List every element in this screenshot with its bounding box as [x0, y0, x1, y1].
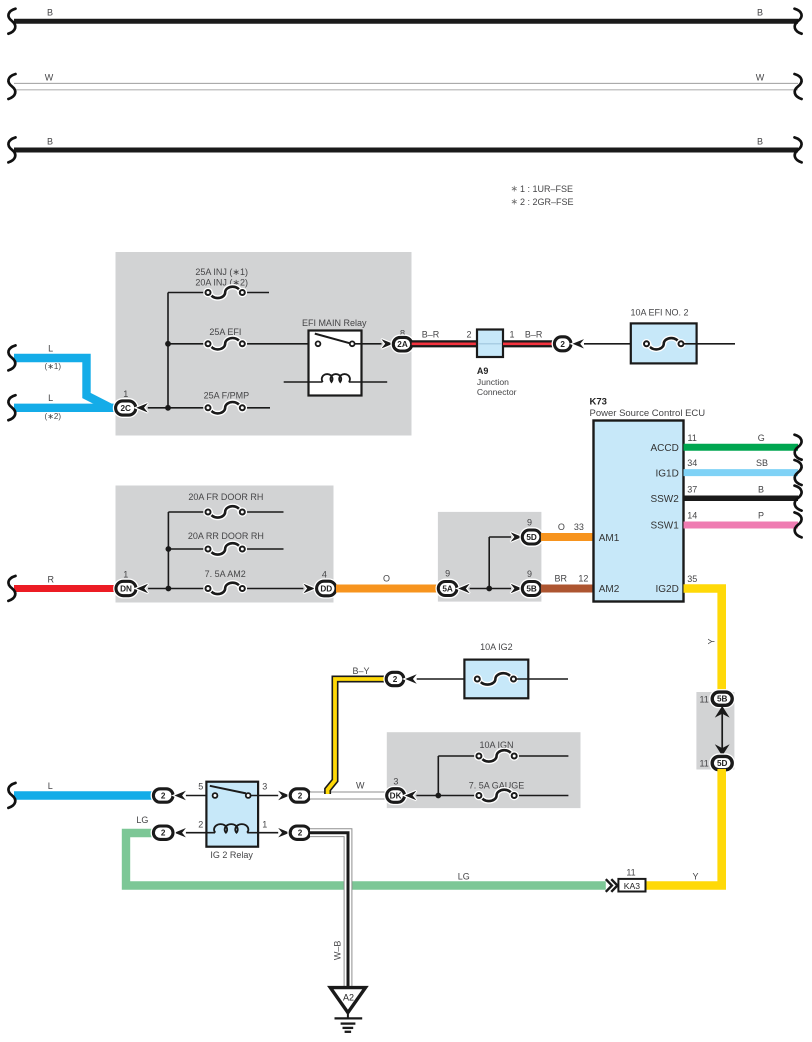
branch vertical (door fuses)	[167, 512, 169, 589]
svg-text:12: 12	[578, 574, 588, 584]
svg-text:2 : 2GR–FSE: 2 : 2GR–FSE	[520, 197, 574, 207]
svg-text:B: B	[758, 484, 764, 494]
arrow into 5D	[511, 532, 522, 541]
svg-text:BR: BR	[554, 574, 567, 584]
fuse block shading (AM2)	[116, 486, 334, 603]
arrow into 5B	[511, 584, 522, 593]
svg-text:G: G	[758, 433, 765, 443]
fuse block shading (engine room)	[116, 252, 412, 436]
wire FR DOOR row	[168, 511, 205, 513]
svg-text:IG1D: IG1D	[655, 468, 678, 479]
svg-text:B–R: B–R	[525, 329, 543, 339]
wire light green LG	[126, 833, 606, 886]
svg-text:25A INJ (∗1): 25A INJ (∗1)	[195, 267, 248, 277]
wire break left (B lower)	[8, 137, 15, 162]
wire pink P pin 14	[684, 522, 799, 529]
svg-text:W: W	[45, 73, 54, 83]
wire INJ row	[168, 292, 206, 294]
svg-text:B–Y: B–Y	[352, 666, 369, 676]
svg-text:KA3: KA3	[624, 881, 640, 891]
svg-text:Junction: Junction	[477, 377, 509, 387]
relay switch output wire	[355, 343, 382, 345]
svg-text:∗: ∗	[511, 184, 519, 194]
svg-text:SSW2: SSW2	[650, 494, 679, 505]
svg-text:LG: LG	[458, 871, 470, 881]
svg-text:2: 2	[198, 820, 203, 830]
arrow into DN	[137, 584, 149, 593]
svg-text:2: 2	[161, 792, 166, 801]
arrow into connector (pin1)	[278, 828, 290, 837]
junction connector A9	[477, 330, 503, 358]
connector 2 (W-B)	[290, 826, 310, 839]
svg-text:∗: ∗	[511, 197, 519, 207]
wire break left (W)	[8, 74, 15, 99]
svg-text:4: 4	[322, 570, 327, 580]
wire break left (B top)	[8, 9, 15, 34]
wire IGN row	[438, 755, 476, 757]
svg-text:O: O	[558, 522, 565, 532]
svg-text:10A IG2: 10A IG2	[480, 642, 513, 652]
wire break left (L)	[8, 783, 15, 808]
arrow into connector 2	[573, 339, 585, 348]
svg-text:L: L	[48, 344, 53, 354]
svg-text:25A EFI: 25A EFI	[209, 327, 241, 337]
wire break right (G)	[795, 435, 802, 460]
wire black B pin 37	[684, 495, 799, 501]
arrow into DK	[405, 791, 417, 800]
svg-text:11: 11	[699, 759, 708, 769]
svg-text:9: 9	[527, 518, 532, 528]
svg-text:7. 5A GAUGE: 7. 5A GAUGE	[469, 780, 525, 790]
wire break right (B top)	[795, 9, 802, 34]
svg-text:5D: 5D	[526, 533, 537, 542]
svg-text:5B: 5B	[526, 585, 537, 594]
wire skyblue SB pin 34	[684, 469, 799, 476]
branch wire up to 5D	[488, 537, 490, 589]
wire break right (P)	[795, 512, 802, 537]
arrow into connector (pin3)	[278, 791, 290, 800]
svg-text:ACCD: ACCD	[650, 443, 678, 454]
wire right of EFI NO.2 fuse	[684, 343, 736, 345]
wire W-B to ground	[310, 833, 348, 988]
wire break right (SB)	[795, 460, 802, 485]
svg-text:P: P	[758, 511, 764, 521]
wire yellow Y (IG2D down)	[684, 589, 722, 694]
svg-text:1: 1	[510, 329, 515, 339]
connector 2 (pin3)	[290, 789, 310, 802]
arrow out left top	[174, 791, 186, 800]
junction dot EFI row	[165, 341, 171, 347]
bus wire B (lower)	[14, 148, 798, 153]
svg-text:20A INJ (∗2): 20A INJ (∗2)	[195, 277, 248, 287]
relay coil row	[284, 381, 323, 383]
arrow into connector B-Y	[405, 674, 417, 683]
wire AM2 row	[148, 588, 205, 590]
svg-text:DK: DK	[390, 792, 402, 801]
wire to relay pin 5	[186, 795, 213, 797]
wire B-Y	[328, 679, 387, 794]
junction dot GAUGE row	[435, 793, 441, 799]
wire blue L (*2)	[14, 404, 117, 412]
wire break left (R)	[8, 576, 15, 601]
wire relay pin 3	[251, 795, 279, 797]
wire break right (W)	[795, 74, 802, 99]
svg-text:35: 35	[687, 574, 697, 584]
ground A2 triangle	[330, 988, 365, 1013]
svg-text:7. 5A AM2: 7. 5A AM2	[205, 569, 246, 579]
svg-text:DN: DN	[120, 585, 132, 594]
svg-text:B: B	[47, 137, 53, 147]
svg-text:Connector: Connector	[477, 387, 517, 397]
fuse block shading (IGN GAUGE)	[387, 732, 581, 808]
arrow up	[715, 706, 730, 718]
arrow down	[715, 744, 730, 756]
svg-text:10A EFI NO. 2: 10A EFI NO. 2	[630, 307, 688, 317]
arrow into DD	[303, 584, 315, 593]
svg-text:1: 1	[123, 389, 128, 399]
bus wire B (top)	[14, 19, 798, 24]
junction block shading (5B 5D vertical)	[696, 692, 734, 770]
wire green G pin 11	[684, 444, 799, 451]
bus wire W	[14, 83, 798, 90]
branch vertical to IGN	[437, 756, 439, 796]
svg-text:34: 34	[687, 458, 697, 468]
wire brown BR (5B to AM2)	[541, 585, 594, 593]
svg-text:A2: A2	[343, 992, 354, 1002]
svg-text:20A RR DOOR RH: 20A RR DOOR RH	[188, 531, 264, 541]
svg-text:2: 2	[298, 792, 303, 801]
relay coil IG2	[214, 824, 248, 833]
svg-text:25A F/PMP: 25A F/PMP	[204, 390, 250, 400]
wire blue L (to IG2 relay)	[14, 791, 154, 799]
svg-text:EFI MAIN Relay: EFI MAIN Relay	[302, 318, 367, 328]
svg-text:9: 9	[445, 569, 450, 579]
svg-text:Y: Y	[692, 872, 698, 882]
svg-text:(∗2): (∗2)	[45, 412, 62, 421]
svg-text:2: 2	[560, 340, 565, 349]
svg-text:IG2D: IG2D	[655, 584, 678, 595]
arrow out left bottom	[174, 828, 186, 837]
wire to EFI NO.2 fuse	[584, 343, 644, 345]
svg-text:2: 2	[161, 829, 166, 838]
svg-text:9: 9	[527, 569, 532, 579]
connector 2 (B-Y)	[386, 672, 404, 685]
svg-text:W: W	[756, 73, 765, 83]
svg-text:33: 33	[574, 522, 584, 532]
svg-text:L: L	[48, 393, 53, 403]
wire blue L (*1)	[14, 358, 111, 408]
svg-text:20A FR DOOR RH: 20A FR DOOR RH	[188, 492, 263, 502]
svg-text:B: B	[47, 8, 53, 18]
svg-text:2: 2	[298, 829, 303, 838]
wire orange O (DD to 5A)	[336, 585, 439, 593]
svg-text:11: 11	[699, 694, 708, 704]
svg-text:IG 2 Relay: IG 2 Relay	[210, 850, 253, 860]
svg-text:B–R: B–R	[422, 329, 440, 339]
ground symbol	[347, 1013, 349, 1019]
svg-text:K73: K73	[590, 397, 607, 408]
svg-text:O: O	[383, 574, 390, 584]
wire break right (B)	[795, 486, 802, 511]
link wire between 5B and 5D	[721, 713, 723, 749]
connector 2 (LG)	[153, 826, 173, 839]
junction dot AM2 row	[166, 586, 172, 592]
svg-text:14: 14	[687, 511, 697, 521]
svg-text:(∗1): (∗1)	[45, 362, 62, 371]
svg-text:LG: LG	[136, 815, 148, 825]
svg-text:A9: A9	[477, 366, 489, 376]
branch node vertical	[167, 293, 169, 408]
wire right of IG2 fuse	[516, 678, 568, 680]
svg-text:Y: Y	[707, 638, 717, 644]
wire break right (B lower)	[795, 137, 802, 162]
wire F/PMP row	[148, 407, 206, 409]
svg-text:1: 1	[123, 570, 128, 580]
wire red R	[14, 585, 117, 592]
wire orange O (5D to AM1)	[541, 533, 594, 541]
svg-text:2: 2	[393, 675, 398, 684]
wire B-R right segment	[503, 340, 555, 347]
arrow out of 5A	[458, 584, 470, 593]
wire yellow Y (5D down to KA3)	[646, 769, 722, 886]
junction dot	[486, 586, 492, 592]
svg-text:1 : 1UR–FSE: 1 : 1UR–FSE	[520, 184, 573, 194]
relay coil	[322, 374, 350, 382]
wire 5A to 5B	[470, 588, 511, 590]
svg-text:AM1: AM1	[599, 533, 620, 544]
junction dot RR row	[166, 546, 172, 552]
svg-text:W–B: W–B	[333, 941, 343, 961]
svg-text:B: B	[757, 137, 763, 147]
wire white W (to DK)	[310, 792, 387, 800]
wire GAUGE row	[416, 795, 476, 797]
wire break left (L *2)	[8, 395, 15, 420]
svg-text:5A: 5A	[442, 585, 453, 594]
wire break left (L *1)	[8, 345, 15, 370]
svg-text:5: 5	[198, 782, 203, 792]
svg-text:DD: DD	[320, 585, 332, 594]
svg-text:W: W	[356, 781, 365, 791]
wire RR DOOR row	[168, 548, 205, 550]
relay IG 2	[206, 782, 258, 847]
svg-text:R: R	[48, 575, 55, 585]
svg-text:SSW1: SSW1	[650, 521, 679, 532]
svg-text:11: 11	[626, 868, 635, 878]
wire B-R left segment	[412, 340, 477, 347]
svg-text:AM2: AM2	[599, 584, 620, 595]
svg-text:5D: 5D	[717, 759, 728, 768]
svg-text:2C: 2C	[120, 404, 131, 413]
arrow into 2A	[381, 339, 393, 348]
svg-text:1: 1	[262, 820, 267, 830]
svg-text:2A: 2A	[397, 340, 408, 349]
wire to 10A IG2 fuse	[417, 678, 477, 680]
connector 2 (B-R)	[554, 337, 571, 351]
svg-text:3: 3	[262, 782, 267, 792]
junction dot F/PMP row	[165, 405, 171, 411]
svg-text:5B: 5B	[717, 695, 728, 704]
wire relay coil row IG2	[186, 832, 215, 834]
arrow into 2C	[136, 403, 148, 412]
wire EFI row	[168, 343, 206, 345]
svg-text:2: 2	[466, 329, 471, 339]
connector 2 (L)	[153, 789, 173, 802]
svg-text:L: L	[48, 781, 53, 791]
svg-text:Power Source Control ECU: Power Source Control ECU	[590, 408, 706, 419]
svg-text:SB: SB	[756, 458, 768, 468]
relay switch contacts	[315, 334, 350, 344]
svg-text:3: 3	[393, 776, 398, 786]
svg-text:B: B	[757, 8, 763, 18]
relay switch contacts IG2	[210, 786, 246, 794]
svg-text:11: 11	[688, 433, 697, 443]
svg-text:37: 37	[687, 484, 697, 494]
junction block shading (5A 5B 5D)	[438, 512, 542, 602]
chevron arrows into KA3	[606, 879, 618, 892]
